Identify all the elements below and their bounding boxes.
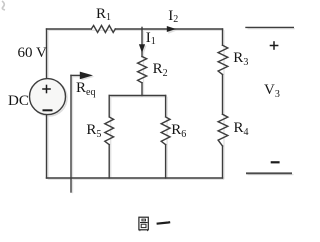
label R6 [171, 123, 186, 138]
terminal line bottom-right (-) [246, 172, 292, 174]
label Req [76, 81, 95, 96]
minus sign V3 [271, 161, 280, 163]
value label DC [8, 94, 29, 109]
wire bottom: left to right [47, 177, 223, 179]
wire: R3 to R4 [222, 75, 224, 115]
caption glyph yi (one) [157, 222, 171, 224]
wire: R6 bottom to bottom wire [165, 145, 167, 178]
wire: bar right end down to R6 [165, 96, 167, 117]
value label 60 V [18, 46, 47, 61]
wire left vertical: source to bottom wire [46, 115, 48, 178]
label R2 [153, 62, 168, 77]
source plus sign [42, 85, 51, 94]
label I2 [168, 9, 178, 24]
scan artifact top-left [2, 1, 5, 10]
wire left vertical: top corner to source [46, 29, 48, 79]
voltage source DC 60V [30, 79, 66, 115]
label R1 [96, 7, 111, 22]
wire branch I1: node A down to R2 [141, 27, 143, 56]
arrowhead Req [80, 72, 93, 80]
arrowhead I1 [139, 44, 145, 53]
source minus sign [43, 109, 53, 111]
label R4 [234, 121, 249, 136]
plus sign V3 [270, 41, 279, 50]
arrowhead I2 [167, 26, 176, 32]
caption glyph tu (figure) [139, 217, 148, 230]
resistor R3 [218, 45, 228, 74]
label I1 [146, 31, 156, 46]
wire: R4 to bottom wire [222, 146, 224, 178]
wire: bar left end down to R5 [108, 96, 110, 117]
wire top-left: left corner to R1 [47, 28, 92, 30]
resistor R4 [218, 114, 228, 146]
resistor R5 [105, 117, 114, 145]
resistor R6 [161, 117, 170, 145]
wire bar above R5 R6 [109, 95, 165, 97]
wire Req probe horizontal [71, 74, 81, 76]
wire: R5 bottom to bottom wire [108, 145, 110, 178]
wire top: R1 to node A [115, 28, 142, 30]
wire right vertical: top corner to R3 [222, 29, 224, 45]
wire Req probe vertical [70, 75, 72, 192]
label R5 [86, 123, 101, 138]
wire top: node A to right corner [142, 28, 223, 30]
label V3 [264, 83, 280, 98]
resistor R1 [91, 26, 115, 33]
wire: R2 bottom to bar [141, 83, 143, 96]
terminal line top-right (+) [246, 26, 293, 28]
resistor R2 [138, 57, 147, 83]
label R3 [233, 51, 248, 66]
